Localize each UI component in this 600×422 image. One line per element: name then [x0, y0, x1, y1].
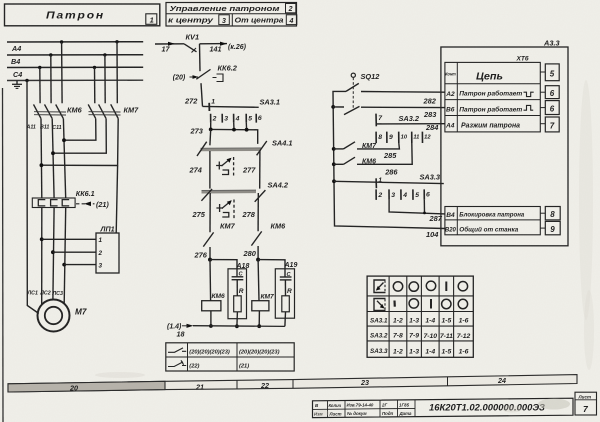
header box "Патрон" — [5, 4, 160, 26]
wire 285 — [357, 143, 399, 160]
coil KM7 — [252, 260, 274, 329]
wire crossover KM7 pole3 to KM6 pole1 — [40, 119, 119, 168]
row B4 Блокировка патрона — [446, 212, 524, 219]
aux contact KM6 — [251, 193, 286, 260]
row A2 Патрон работает — [445, 90, 533, 98]
row SA3.3 — [370, 348, 469, 355]
SA3.2 pins 8-12 — [376, 132, 431, 143]
wire labels LS1 LS2 LS3 — [27, 291, 63, 298]
header zone ref box 1 — [146, 14, 157, 24]
brake unit LP1 — [96, 225, 119, 274]
wires KK6.1 to motor — [40, 208, 66, 305]
node 273 and pin drops — [190, 123, 258, 146]
switch SA3.1 common — [203, 97, 281, 111]
terminal pin 9 — [540, 221, 560, 234]
wires SA4.1 to SA4.2 — [210, 151, 260, 189]
NC contact icon — [168, 360, 186, 366]
bus line PE — [7, 79, 143, 81]
wire rail 18 — [167, 324, 285, 339]
wire 287 — [389, 200, 445, 223]
zone band — [8, 375, 577, 393]
terminal pin 6a — [540, 86, 559, 99]
SA3.3 pins 2-6 — [376, 189, 430, 200]
wire 282 — [361, 92, 445, 106]
wire crossover KM7 pole1 to KM6 pole3 — [62, 119, 96, 143]
NO contact icon — [168, 348, 186, 352]
wire 141 to (k.26) — [200, 42, 247, 54]
row B6 Патрон работает — [446, 105, 533, 113]
row SA3.1 — [370, 317, 469, 324]
contact state circles row1 — [393, 281, 467, 291]
switch SA3.3 common — [334, 173, 444, 189]
header box "Управление патроном" — [166, 3, 297, 27]
usage refs row2 — [189, 364, 249, 370]
wire KM6 pole outputs down to KK6.1 — [41, 119, 66, 199]
wire feed to LP1 top — [116, 166, 117, 234]
labels 274 277 — [189, 165, 257, 174]
wire LP1 pin3 — [64, 264, 96, 266]
aux contact KM7 right — [334, 142, 377, 150]
wire KV1 to KK6.2 — [199, 44, 202, 71]
SQ12 contact 1 — [346, 83, 359, 91]
linkage arrow (20) — [173, 75, 199, 82]
wire 17 — [155, 42, 184, 54]
aux contact KM7 — [203, 193, 235, 260]
node 276 — [194, 250, 213, 261]
position icon row2 — [374, 299, 386, 311]
cam actuator icon 2 — [216, 200, 234, 219]
RC unit A18 — [210, 260, 249, 329]
cam switch SA4.2 — [201, 180, 289, 202]
row A4 Разжим патрона — [445, 122, 520, 129]
cam switch SA4.1 — [197, 139, 293, 156]
terminal table XT6 upper — [445, 62, 540, 131]
contactor KM7 main contacts — [88, 42, 139, 119]
wire labels A11 B11 C11 — [26, 125, 62, 132]
wire LP1 pin1 — [42, 238, 96, 240]
terminal pin 6b — [540, 101, 559, 115]
chuck interface unit A3.3 — [441, 38, 568, 246]
aux contact KM6 right — [334, 157, 376, 165]
header zone ref box 3 — [219, 15, 230, 25]
terminal pin 7 — [540, 117, 559, 132]
terminal table XT6 lower — [445, 207, 540, 235]
row SA3.2 — [370, 332, 471, 340]
header zone ref box 4 — [286, 15, 297, 25]
cam actuator icon 1 — [216, 157, 234, 176]
wire 272 — [184, 83, 203, 106]
sheet frame left edge — [2, 88, 5, 422]
labels 275 278 — [192, 210, 256, 219]
SQ12 contact 2 — [333, 106, 359, 114]
bus line C4 — [7, 67, 143, 79]
ground — [12, 81, 22, 89]
contactor KM6 main contacts — [34, 42, 83, 119]
scan smudges — [95, 80, 594, 416]
terminal pin 5 — [540, 64, 559, 81]
wire 283 — [361, 107, 445, 119]
row B20 Общий от станка — [445, 225, 519, 233]
usage refs row1 — [189, 350, 279, 356]
bus line A4 — [7, 42, 143, 53]
switch SA3.2 common pin 7 — [376, 114, 420, 127]
relay contact KV1 — [184, 33, 199, 53]
SA3.1 pins 2-6 — [211, 114, 262, 123]
coil KM6 — [202, 260, 225, 328]
contact state circles row2 — [395, 299, 468, 309]
position icon row1 — [374, 280, 386, 293]
thermal overload KK6.1 — [32, 189, 94, 207]
wire LP1 pin2 — [53, 251, 96, 253]
contact usage table — [166, 343, 294, 371]
node 280 — [243, 249, 261, 262]
limit switch SQ12 — [351, 72, 380, 110]
linkage arrow to (21) — [76, 200, 109, 209]
wire crossover KM7 pole2 to KM6 pole2 — [51, 119, 106, 156]
motor M7 — [38, 300, 87, 332]
node dots on buses — [25, 40, 118, 82]
wire PE drop to motor frame — [27, 81, 39, 314]
left bus of chuck unit — [331, 91, 445, 239]
terminal pin 8 — [540, 207, 560, 220]
title block sheet no — [575, 392, 597, 415]
header zone ref box 2 — [286, 4, 296, 14]
thermal contact KK6.2 — [196, 63, 237, 81]
wire 284 — [376, 123, 445, 132]
switch position table — [367, 276, 473, 357]
bus line B4 — [7, 55, 143, 66]
wire 286 — [357, 143, 412, 177]
RC unit A19 — [258, 260, 297, 327]
title block — [313, 398, 574, 417]
